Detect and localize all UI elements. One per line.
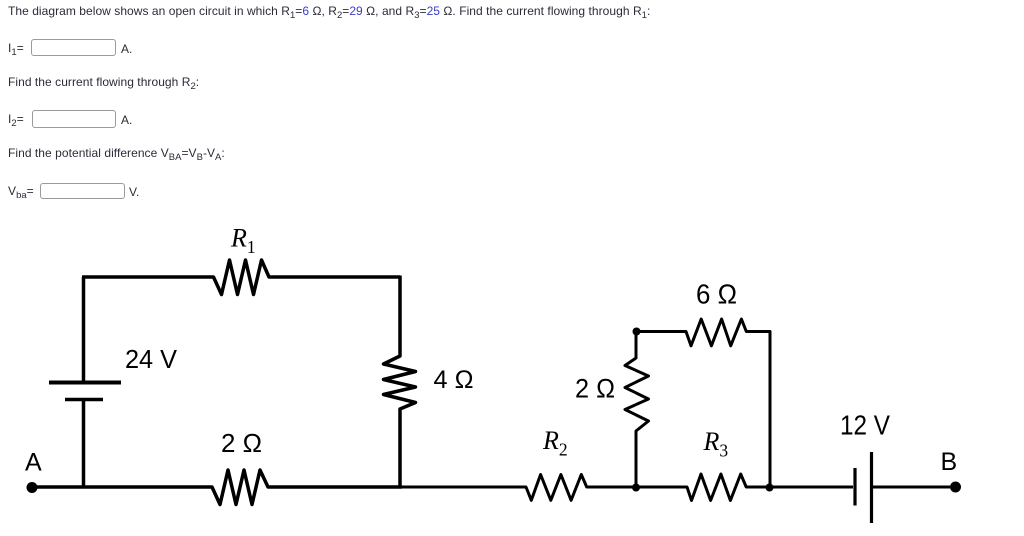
svg-text:A: A [25, 449, 42, 477]
svg-text:24 V: 24 V [125, 346, 177, 374]
svg-text:2 Ω: 2 Ω [221, 428, 262, 458]
svg-text:2 Ω: 2 Ω [575, 374, 615, 404]
svg-text:R1: R1 [230, 224, 256, 258]
svg-text:6 Ω: 6 Ω [696, 279, 737, 310]
svg-text:B: B [941, 448, 958, 476]
svg-text:12 V: 12 V [840, 410, 890, 441]
svg-text:4 Ω: 4 Ω [434, 366, 474, 394]
svg-text:R2: R2 [542, 426, 568, 460]
svg-text:R3: R3 [703, 427, 729, 461]
